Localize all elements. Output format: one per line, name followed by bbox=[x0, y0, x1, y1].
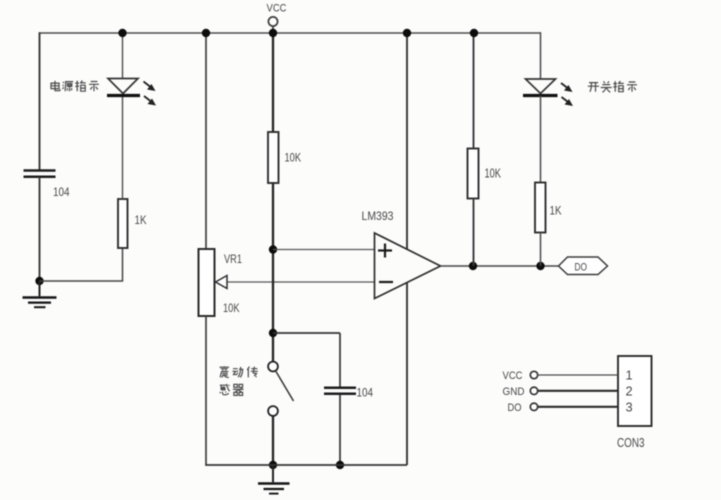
switch SW1 vibration sensor bbox=[268, 362, 293, 416]
ground (bottom) bbox=[258, 465, 290, 494]
wire op-amp power vertical bbox=[406, 33, 408, 465]
resistor R3 10K bbox=[468, 149, 502, 199]
svg-text:10K: 10K bbox=[285, 151, 302, 165]
wire right rail to LED D2 bbox=[540, 32, 542, 79]
capacitor C2 104 bbox=[324, 386, 373, 400]
junction top rail VCC bbox=[269, 29, 277, 37]
wire VR1 bottom to bottom rail bbox=[205, 316, 207, 465]
junction divider tap bbox=[269, 245, 277, 253]
wire top VCC rail bbox=[40, 32, 542, 34]
label 开关指示 bbox=[588, 81, 637, 92]
connector CON3 body bbox=[618, 356, 652, 426]
junction top rail R3 bbox=[470, 29, 478, 37]
op-amp U1 LM393 bbox=[362, 209, 441, 299]
LED D1 power indicator bbox=[107, 79, 156, 106]
svg-text:1K: 1K bbox=[135, 213, 148, 227]
junction top rail op-amp power bbox=[403, 29, 411, 37]
svg-text:2: 2 bbox=[626, 384, 633, 399]
svg-text:1: 1 bbox=[626, 368, 633, 383]
svg-text:104: 104 bbox=[53, 185, 70, 199]
wire C2 bottom bbox=[339, 395, 341, 465]
wire to op-amp non-inverting input bbox=[273, 249, 375, 251]
pin VCC of CON3 bbox=[503, 370, 619, 382]
svg-text:104: 104 bbox=[357, 386, 374, 400]
svg-text:1K: 1K bbox=[550, 204, 563, 218]
junction output DO bbox=[536, 262, 544, 270]
svg-text:10K: 10K bbox=[485, 166, 502, 181]
wire ground to R2 bottom bbox=[40, 248, 123, 281]
port DO flag bbox=[559, 257, 608, 275]
svg-text:GND: GND bbox=[503, 386, 525, 398]
resistor R2 1K bbox=[118, 199, 147, 248]
wire center divider upper bbox=[272, 33, 274, 132]
wire R3 bottom bbox=[473, 199, 475, 267]
wire op-amp output bbox=[441, 265, 559, 267]
svg-text:DO: DO bbox=[508, 402, 522, 414]
wire wiper to op-amp inverting input bbox=[227, 281, 375, 283]
junction top rail LED D1 bbox=[118, 29, 126, 37]
pin GND of CON3 bbox=[503, 386, 619, 398]
wire center divider to switch bbox=[272, 183, 274, 362]
svg-text:CON3: CON3 bbox=[617, 435, 645, 450]
wire LED D1 anode to top rail bbox=[122, 33, 124, 79]
svg-text:LM393: LM393 bbox=[362, 209, 394, 223]
wire C2 top bbox=[339, 333, 341, 387]
svg-text:3: 3 bbox=[626, 400, 633, 415]
resistor R4 1K bbox=[535, 183, 562, 233]
wire left rail upper bbox=[39, 32, 41, 170]
wiper arrow of VR1 bbox=[216, 276, 228, 289]
potentiometer VR1 body bbox=[199, 249, 243, 316]
power symbol VCC bbox=[267, 3, 287, 34]
wire bottom rail bbox=[205, 464, 407, 466]
wire R3 top bbox=[473, 33, 475, 149]
svg-text:10K: 10K bbox=[223, 301, 240, 315]
svg-text:VCC: VCC bbox=[267, 3, 287, 15]
svg-text:VCC: VCC bbox=[503, 370, 523, 382]
wire VR1 top bbox=[205, 32, 207, 249]
wire left rail lower bbox=[39, 177, 41, 281]
junction at left ground node bbox=[35, 277, 43, 285]
wire R2 top to LED D1 bbox=[122, 96, 124, 200]
pin DO of CON3 bbox=[508, 402, 619, 414]
capacitor C1 104 bbox=[24, 171, 70, 200]
ground (left) bbox=[23, 281, 57, 307]
wire R4 bottom bbox=[540, 233, 542, 267]
svg-text:VR1: VR1 bbox=[224, 252, 242, 266]
junction output R3 bbox=[469, 262, 477, 270]
junction top rail VR1 bbox=[202, 29, 210, 37]
svg-text:DO: DO bbox=[575, 262, 588, 274]
junction switch top node bbox=[269, 329, 277, 337]
wire switch node to C2 bbox=[273, 332, 340, 334]
wire LED D2 to R4 bbox=[540, 96, 542, 183]
wire switch bottom to bottom rail bbox=[272, 416, 274, 465]
label 震动传感器 bbox=[220, 366, 258, 395]
LED D2 switch indicator bbox=[523, 79, 573, 106]
resistor R1 10K bbox=[268, 132, 302, 183]
junction C2 at bottom rail bbox=[336, 461, 344, 469]
junction bottom rail ground bbox=[269, 461, 277, 469]
label 电源指示 bbox=[51, 81, 99, 92]
